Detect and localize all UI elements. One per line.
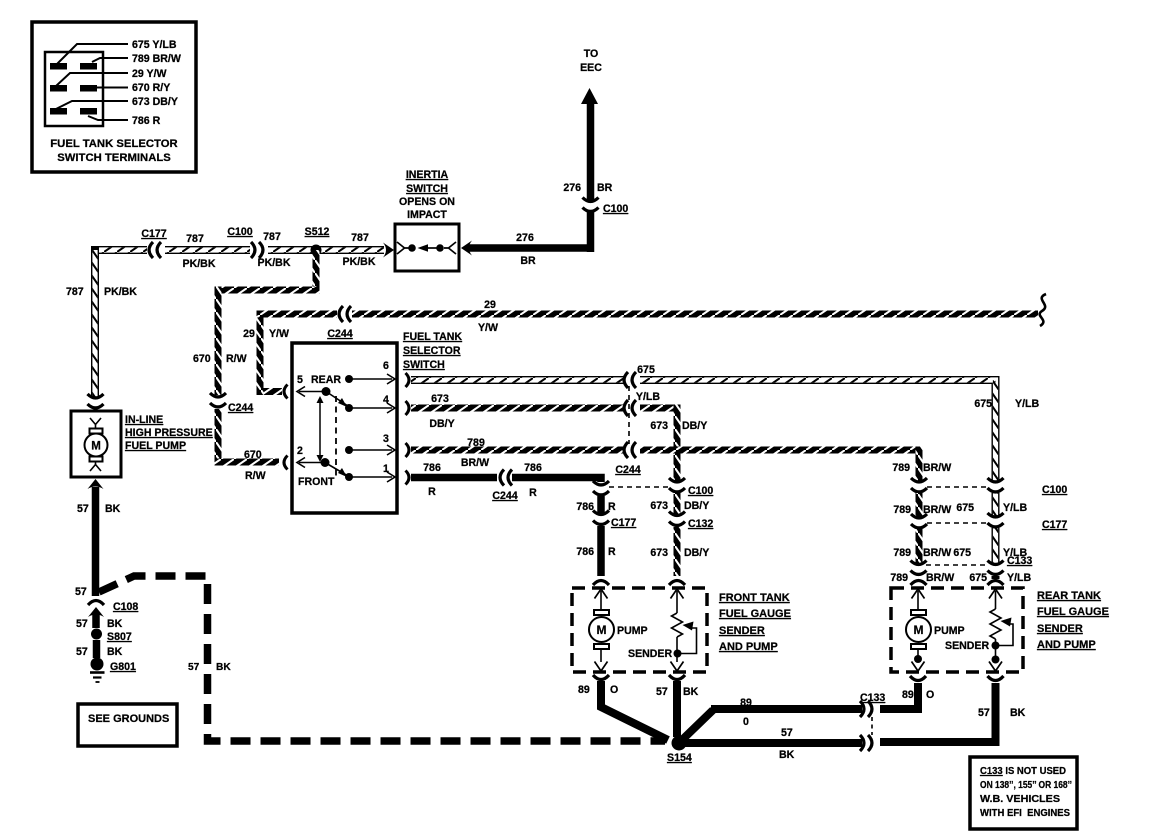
svg-text:0: 0 [743,716,749,728]
svg-text:789: 789 [893,547,911,559]
svg-text:FUEL GAUGE: FUEL GAUGE [1037,606,1109,618]
svg-text:FUEL TANK SELECTOR: FUEL TANK SELECTOR [50,138,177,150]
switch terminal 3 [345,446,353,454]
svg-text:WITH EFI ENGINES: WITH EFI ENGINES [980,808,1070,819]
svg-text:SENDER: SENDER [628,648,672,660]
svg-text:BK: BK [1010,707,1026,719]
svg-text:SWITCH TERMINALS: SWITCH TERMINALS [57,152,171,164]
connector C133 on 89 wire [860,701,872,717]
svg-text:Y/LB: Y/LB [1003,502,1027,514]
connector C100 on 789 [911,478,927,492]
svg-text:673: 673 [431,393,449,405]
connector C177 on 675 [988,513,1004,527]
svg-text:675: 675 [956,502,974,514]
svg-text:57: 57 [77,503,89,515]
connector C244 on 786 [500,470,512,486]
switch movable contact upper [326,392,348,407]
svg-text:SENDER: SENDER [1037,623,1083,635]
svg-text:89: 89 [902,689,914,701]
svg-text:787: 787 [351,232,369,244]
svg-text:C244: C244 [492,490,517,502]
svg-text:89: 89 [578,684,590,696]
svg-text:4: 4 [383,394,389,406]
svg-text:BR/W: BR/W [923,462,951,474]
svg-text:G801: G801 [110,661,136,673]
switch terminal 6 [345,375,353,383]
wire 675 Y/LB horizontal (thin hatched) [411,380,996,481]
wire 675 segment C177-C133 [992,528,1000,563]
svg-text:C133: C133 [860,692,885,704]
wire 57 BK to G801 [93,640,101,658]
front pump [595,589,608,599]
svg-text:PK/BK: PK/BK [343,256,376,268]
wire 786 segment [597,496,605,513]
svg-text:SEE GROUNDS: SEE GROUNDS [88,713,169,725]
svg-text:S807: S807 [107,631,132,643]
note box C133 [970,757,1077,829]
svg-text:57: 57 [75,586,87,598]
front tank dashed box [572,588,707,672]
svg-text:Y/W: Y/W [269,328,289,340]
svg-text:276: 276 [563,182,581,194]
wire 673 segment lower [674,527,681,576]
svg-text:C108: C108 [113,601,138,613]
switch terminal 1 [345,473,353,481]
svg-text:PUMP: PUMP [617,625,648,637]
arc into switch terminal 5 [284,385,288,399]
svg-text:789: 789 [890,572,908,584]
svg-text:C132: C132 [688,518,713,530]
svg-text:787: 787 [66,286,84,298]
svg-text:REAR: REAR [311,374,341,386]
svg-text:1: 1 [383,463,389,475]
svg-text:C100: C100 [688,485,713,497]
connector C177 on 789 [911,514,927,528]
wire 673 segment [674,493,681,514]
wire 57 BK S154 to rear sender [685,739,862,747]
connector C244 on 675 [624,372,636,388]
switch terminal 2 [297,458,305,468]
svg-text:PK/BK: PK/BK [183,258,216,270]
splice S512 [311,245,322,256]
svg-text:789: 789 [467,437,485,449]
svg-text:FRONT: FRONT [298,476,335,488]
svg-text:R: R [608,546,616,558]
svg-text:BK: BK [107,646,123,658]
svg-text:57: 57 [76,618,88,630]
wire 786 R (solid) [411,474,497,482]
svg-text:Y/LB: Y/LB [636,391,660,403]
svg-text:3: 3 [383,433,389,445]
rear tank dashed box [891,588,1023,672]
svg-text:C100: C100 [1042,484,1067,496]
svg-text:57: 57 [781,727,793,739]
svg-text:AND PUMP: AND PUMP [719,641,778,653]
svg-text:675: 675 [637,364,655,376]
svg-text:R: R [428,486,436,498]
connector C244 on 670 wire [210,393,226,407]
connector C100 on 787 [251,242,263,258]
svg-text:29 Y/W: 29 Y/W [132,68,167,80]
arc into switch terminal 2 [284,456,288,470]
svg-text:O: O [610,684,618,696]
fuel tank selector switch terminals legend box [32,22,196,172]
svg-text:C177: C177 [1042,519,1067,531]
svg-text:FUEL PUMP: FUEL PUMP [125,440,186,452]
svg-text:ON 138’’, 155’’ OR 168’’: ON 138’’, 155’’ OR 168’’ [980,780,1072,791]
front sender [671,589,684,599]
svg-text:673: 673 [650,547,668,559]
cap into front sender [669,581,685,586]
inertia switch contacts [397,242,456,254]
svg-text:786: 786 [576,501,594,513]
svg-text:787: 787 [263,231,281,243]
switch terminal 5 [297,387,305,397]
wire 675 segment below C133 [992,576,1000,579]
svg-text:673: 673 [650,500,668,512]
svg-text:5: 5 [297,374,303,386]
svg-text:C177: C177 [141,228,166,240]
svg-text:Y/LB: Y/LB [1015,398,1039,410]
svg-text:O: O [926,689,934,701]
svg-text:DB/Y: DB/Y [682,420,707,432]
svg-text:Y/LB: Y/LB [1007,572,1031,584]
svg-text:BK: BK [779,749,795,761]
svg-text:C100: C100 [603,203,628,215]
switch terminal 4 [345,404,353,412]
dashed ground wire 57 BK [99,576,665,741]
wire 57 BK to S807 [92,614,100,628]
svg-text:675: 675 [953,547,971,559]
svg-text:SWITCH: SWITCH [406,183,448,195]
connector C100 on 673 [669,478,685,492]
ground G801 [91,658,104,671]
svg-text:PK/BK: PK/BK [104,286,137,298]
caps below front box [593,675,609,680]
svg-text:BR/W: BR/W [923,547,951,559]
svg-text:IMPACT: IMPACT [407,209,447,221]
svg-text:Y/W: Y/W [478,322,498,334]
svg-text:29: 29 [484,299,496,311]
switch movable contact lower [325,463,348,477]
svg-text:BR/W: BR/W [926,572,954,584]
svg-text:675: 675 [974,398,992,410]
rear pump [912,589,925,599]
svg-text:789 BR/W: 789 BR/W [132,53,181,65]
connector C133 on 675 [988,561,1004,575]
see grounds box [78,704,177,746]
svg-text:276: 276 [516,232,534,244]
svg-text:57: 57 [656,686,668,698]
svg-text:R/W: R/W [226,353,247,365]
svg-text:673: 673 [650,420,668,432]
dashed connector links [628,386,630,444]
wire 787 PK/BK horizontal (thin hatched) [95,246,384,254]
inertia switch box [395,224,459,271]
wire 789 segment [916,493,923,517]
svg-text:C133 IS NOT USED: C133 IS NOT USED [980,766,1066,777]
svg-text:670: 670 [244,449,262,461]
wire 789 BR/W horizontal (thick hatched) [411,447,624,454]
svg-text:787: 787 [186,233,204,245]
svg-text:BR/W: BR/W [461,457,489,469]
svg-text:786: 786 [524,462,542,474]
svg-text:675 Y/LB: 675 Y/LB [132,39,177,51]
svg-text:HIGH PRESSURE: HIGH PRESSURE [125,427,213,439]
svg-text:786: 786 [423,462,441,474]
connector C132 on 673 [669,512,685,526]
svg-text:DB/Y: DB/Y [684,547,709,559]
svg-text:REAR TANK: REAR TANK [1037,590,1101,602]
svg-text:AND PUMP: AND PUMP [1037,639,1096,651]
connector on 57 BK bottom [860,735,872,751]
svg-text:BK: BK [107,618,123,630]
svg-text:789: 789 [892,462,910,474]
svg-text:C100: C100 [227,226,252,238]
svg-text:DB/Y: DB/Y [429,418,454,430]
connector C100 on 786 [593,481,609,495]
wire 789 segment lower [916,529,923,563]
svg-text:C133: C133 [1007,555,1032,567]
svg-text:670 R/Y: 670 R/Y [132,82,170,94]
svg-text:R/W: R/W [245,470,266,482]
svg-text:S512: S512 [305,226,330,238]
splice S154 [672,736,687,751]
svg-text:BR/W: BR/W [923,504,951,516]
svg-text:FUEL GAUGE: FUEL GAUGE [719,608,791,620]
svg-text:675: 675 [969,572,987,584]
wire 89 O front pump to S154 [601,681,668,740]
wire 670 R/W lower [215,409,222,466]
in-line high pressure fuel pump [71,411,121,477]
svg-text:C244: C244 [228,402,253,414]
svg-text:786 R: 786 R [132,115,161,127]
svg-text:DB/Y: DB/Y [684,500,709,512]
arrow from 787 wire into inertia switch [383,243,394,258]
svg-text:TO: TO [584,48,599,60]
svg-text:57: 57 [978,707,990,719]
svg-text:789: 789 [893,504,911,516]
caps below rear box [910,676,926,681]
rear sender [989,589,1002,599]
svg-text:INERTIA: INERTIA [406,169,449,181]
svg-text:673 DB/Y: 673 DB/Y [132,96,178,108]
wire 276 BR vertical [587,102,595,201]
svg-text:SENDER: SENDER [945,640,989,652]
svg-text:SWITCH: SWITCH [403,359,445,371]
fuel tank selector switch box [292,343,397,513]
connector C133 on 789 [911,561,927,575]
connector C244 on 29 wire [339,306,351,322]
svg-text:57: 57 [188,662,200,673]
wire 276 BR horizontal [468,244,594,252]
wire 57 BK front sender to S154 [673,681,681,737]
cap into rear sender [988,581,1004,586]
svg-text:BK: BK [105,503,121,515]
svg-text:OPENS ON: OPENS ON [399,196,455,208]
svg-text:S154: S154 [667,752,692,764]
svg-text:6: 6 [383,360,389,372]
svg-text:89: 89 [740,697,752,709]
wire 29 Y/W (thick hatched) [257,388,283,395]
connector C100 on 675 [988,478,1004,492]
wire 57 BK from in-line pump (solid) [88,479,104,489]
splice S807 [91,629,102,640]
svg-text:PUMP: PUMP [934,625,965,637]
cap into rear pump [911,581,927,586]
svg-text:BK: BK [216,662,231,673]
svg-text:C244: C244 [327,328,352,340]
svg-text:BK: BK [683,686,699,698]
svg-text:FRONT TANK: FRONT TANK [719,592,790,604]
wire 787 PK/BK vertical (thin hatched) [91,246,99,398]
wire 786 lower [597,526,605,576]
svg-text:C177: C177 [611,517,636,529]
svg-text:BR: BR [597,182,613,194]
svg-text:SENDER: SENDER [719,625,765,637]
wire 89/0 S154 to C133 to rear pump [683,709,862,739]
svg-text:M: M [91,441,101,453]
connector C177 on 786 [593,511,609,525]
svg-text:670: 670 [193,353,211,365]
svg-text:29: 29 [243,328,255,340]
connector C108 [88,601,104,606]
wire 673 DB/Y horizontal (thick hatched) [411,405,624,412]
svg-text:57: 57 [76,646,88,658]
cap into front pump [593,581,609,586]
svg-text:786: 786 [576,546,594,558]
arrow into inertia switch [461,241,472,256]
svg-text:IN-LINE: IN-LINE [125,414,163,426]
svg-text:R: R [529,487,537,499]
arrow to EEC [581,88,598,104]
svg-text:BR: BR [520,255,536,267]
connector C100 on 276 wire [583,198,599,212]
svg-text:W.B. VEHICLES: W.B. VEHICLES [980,794,1060,805]
switch gang dashed link [335,396,337,477]
svg-text:SELECTOR: SELECTOR [403,345,461,357]
wire break squiggle at right end of 29 wire [1040,294,1046,326]
connector into in-line pump [88,394,104,408]
svg-text:C244: C244 [615,464,640,476]
wire from S512 down/left (thick hatched 670 run) [313,250,320,294]
wire 675 segment C100-C177 [992,493,1000,516]
svg-text:2: 2 [297,445,303,457]
svg-text:EEC: EEC [580,62,602,74]
connector C177 on 787 [149,242,161,258]
switch throw double arrow [319,401,321,457]
svg-text:PK/BK: PK/BK [258,257,291,269]
svg-text:FUEL TANK: FUEL TANK [403,331,462,343]
